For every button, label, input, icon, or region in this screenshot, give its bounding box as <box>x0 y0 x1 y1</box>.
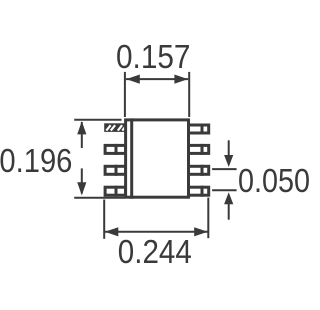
svg-text:0.196: 0.196 <box>0 143 72 180</box>
svg-text:0.244: 0.244 <box>118 234 192 271</box>
svg-text:0.157: 0.157 <box>116 39 191 76</box>
svg-text:0.050: 0.050 <box>238 163 310 200</box>
